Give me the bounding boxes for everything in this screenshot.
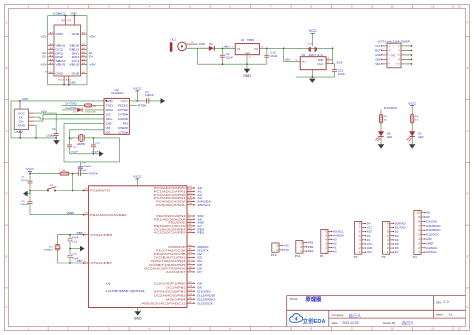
svg-text:16MHz: 16MHz	[44, 250, 53, 252]
svg-text:A1: A1	[333, 245, 337, 249]
wire VCC to SJ1	[312, 34, 314, 46]
svg-text:1/1: 1/1	[448, 312, 453, 316]
capacitor C11	[92, 138, 94, 145]
svg-text:VCC: VCC	[367, 242, 373, 246]
svg-text:A2: A2	[333, 241, 337, 245]
svg-text:A4: A4	[49, 43, 53, 46]
svg-text:SWC: SWC	[375, 63, 381, 66]
svg-text:22pF: 22pF	[71, 151, 79, 153]
U5 pin stubs right	[326, 59, 333, 61]
svg-text:30: 30	[188, 245, 192, 247]
header P12	[272, 243, 279, 252]
svg-text:A4: A4	[49, 55, 53, 58]
wire U5 gnd	[311, 70, 313, 77]
svg-text:D0: D0	[367, 234, 371, 238]
svg-text:SBU2: SBU2	[55, 59, 66, 63]
U3 pin CLKO/ICP1/PB0	[187, 282, 194, 284]
svg-text:9: 9	[388, 64, 390, 66]
svg-text:TAB: TAB	[317, 59, 323, 62]
ground rail power section	[198, 63, 267, 65]
USB type-C connector USB1 outer wires	[48, 15, 87, 17]
U3 pin PE1/ADC6/ACXP	[187, 218, 194, 220]
svg-text:27: 27	[188, 200, 192, 202]
svg-text:GND: GND	[426, 237, 432, 241]
IC U2 CH340G	[104, 98, 129, 134]
svg-text:1N4148: 1N4148	[85, 112, 97, 114]
svg-text:22pF: 22pF	[72, 237, 80, 239]
svg-text:DC1: DC1	[171, 39, 177, 42]
usb2 ground rail	[10, 101, 12, 138]
wire R1 to C5	[69, 173, 78, 175]
svg-text:12: 12	[188, 281, 192, 283]
wire crystal gnd	[70, 248, 80, 250]
svg-text:XTALI/PB6: XTALI/PB6	[90, 233, 113, 237]
svg-text:7: 7	[388, 59, 390, 61]
svg-text:UD-: UD-	[106, 122, 113, 126]
svg-text:GND: GND	[22, 97, 28, 101]
svg-text:D12/MISO: D12/MISO	[426, 228, 440, 232]
svg-text:6: 6	[398, 55, 400, 57]
svg-text:DN2: DN2	[55, 55, 63, 59]
svg-text:LGT8F328P-QFP32L: LGT8F328P-QFP32L	[106, 289, 146, 293]
svg-text:GND: GND	[245, 53, 251, 55]
svg-text:1117-3.3: 1117-3.3	[308, 54, 323, 57]
U3 pin PC0/ADC0/APP0	[187, 187, 194, 189]
ground arrow x1	[80, 246, 85, 252]
svg-text:A4: A4	[49, 71, 53, 74]
LCEDA logo	[290, 314, 303, 323]
svg-text:A4: A4	[49, 62, 53, 65]
svg-text:1: 1	[188, 256, 190, 258]
svg-text:13: 13	[188, 231, 192, 233]
U3 pin PC5/ADC5/SCL	[187, 204, 194, 206]
wire +5V from USB2 VCC	[34, 112, 56, 114]
svg-text:PD0/RXD: PD0/RXD	[168, 245, 185, 249]
wire reset node down	[72, 174, 74, 191]
svg-text:19: 19	[84, 213, 88, 215]
ground arrow under C6	[55, 138, 57, 140]
USB-C bottom pin drops	[63, 76, 65, 85]
svg-text:D10/SS: D10/SS	[426, 219, 437, 223]
svg-text:GND: GND	[18, 123, 25, 127]
svg-text:D8: D8	[197, 281, 202, 285]
U3 pin PE2/SWD	[187, 222, 194, 224]
svg-text:24: 24	[188, 190, 192, 192]
svg-text:+5V: +5V	[41, 109, 47, 113]
U2 pin1 mark	[105, 100, 107, 102]
svg-text:P3: P3	[382, 255, 386, 259]
svg-text:VBUS: VBUS	[55, 63, 65, 67]
wire C5 to RST#	[81, 173, 89, 175]
svg-text:D: D	[6, 193, 8, 196]
svg-text:D12/MISO: D12/MISO	[197, 297, 215, 301]
svg-text:XO: XO	[106, 131, 111, 135]
svg-text:D2: D2	[395, 230, 399, 234]
P5 pin pair row 3	[382, 54, 387, 56]
header P4	[414, 210, 421, 254]
svg-text:10: 10	[188, 266, 192, 268]
resistor R7	[411, 114, 414, 123]
svg-text:VCC: VCC	[284, 248, 290, 252]
U3 pin OC2B/INT1/PD3	[187, 257, 194, 259]
wire down to U5 output	[332, 48, 334, 63]
svg-text:D3: D3	[395, 234, 399, 238]
svg-text:MISO/PB4: MISO/PB4	[166, 297, 186, 301]
svg-text:DCD#: DCD#	[118, 117, 128, 121]
svg-text:PB6: PB6	[77, 231, 84, 235]
svg-text:D1/TX: D1/TX	[197, 248, 209, 252]
svg-text:VCC: VCC	[284, 243, 290, 247]
wire AVREF	[30, 214, 83, 216]
resistor R6	[379, 114, 382, 123]
svg-text:10uF: 10uF	[270, 55, 278, 58]
U3 pin AC1O/OC1A/PE5	[187, 232, 194, 234]
svg-text:22pF: 22pF	[72, 258, 80, 260]
svg-text:D5: D5	[395, 242, 399, 246]
svg-text:CC2: CC2	[55, 47, 63, 51]
svg-text:D7: D7	[395, 250, 399, 254]
svg-text:R232: R232	[118, 104, 128, 108]
svg-text:D11/MOSI: D11/MOSI	[197, 293, 215, 297]
U3 pin OC1A/PB1	[187, 286, 194, 288]
svg-text:P9: P9	[354, 255, 358, 259]
svg-text:LED: LED	[418, 137, 424, 139]
frame column ticks and numbers	[47, 5, 49, 9]
svg-text:SPSS/OC1B/PB2: SPSS/OC1B/PB2	[154, 289, 187, 293]
svg-text:2: 2	[188, 259, 190, 261]
svg-text:D: D	[467, 193, 469, 196]
capacitor C2	[222, 48, 224, 55]
svg-text:C: C	[6, 130, 8, 133]
title block border	[287, 296, 466, 327]
svg-text:11: 11	[188, 270, 192, 272]
serial TXD wire with resistor R2	[62, 104, 84, 106]
svg-text:D13/SCK: D13/SCK	[426, 233, 439, 237]
svg-text:B4: B4	[82, 44, 86, 46]
svg-text:USB(C): USB(C)	[53, 12, 66, 16]
node C10	[266, 48, 268, 50]
ground arrow led1	[378, 144, 385, 148]
svg-text:12: 12	[188, 227, 192, 229]
wire led2 to gnd	[411, 137, 413, 144]
svg-text:10uF: 10uF	[226, 57, 234, 60]
svg-text:ACXN/PD7: ACXN/PD7	[166, 270, 186, 274]
svg-text:A4: A4	[49, 51, 53, 54]
svg-text:9: 9	[188, 263, 190, 265]
svg-text:GND: GND	[199, 42, 205, 46]
svg-text:+5V: +5V	[89, 63, 96, 67]
svg-text:1.0: 1.0	[444, 300, 449, 304]
wire +5V to U5 input	[284, 48, 301, 61]
svg-text:5: 5	[388, 55, 390, 57]
svg-text:DP2: DP2	[55, 51, 63, 55]
wire cap branch bottom	[69, 249, 71, 263]
svg-text:10uF: 10uF	[21, 180, 29, 182]
svg-text:B1: B1	[45, 71, 49, 73]
node GND bottom of USB-C	[63, 84, 65, 86]
svg-text:PD2/INT0/OC3B: PD2/INT0/OC3B	[154, 252, 186, 256]
svg-text:VCC: VCC	[133, 87, 142, 91]
header P3	[383, 221, 390, 254]
U3 pin PD0/RXD	[187, 246, 194, 248]
wire cap branch top	[69, 235, 71, 249]
ground arrow led2	[409, 144, 416, 148]
svg-text:GND: GND	[71, 11, 77, 15]
svg-text:PE6/ADC10/AVREF: PE6/ADC10/AVREF	[90, 213, 127, 217]
svg-text:GND: GND	[72, 71, 80, 75]
wire USB2 D+ to U2	[34, 114, 104, 121]
svg-text:7: 7	[84, 233, 86, 235]
U3 pin PE0/SWC/APN4	[187, 215, 194, 217]
svg-text:8: 8	[84, 261, 86, 263]
ground arrow right of C4	[161, 98, 166, 104]
svg-text:2021-12-09: 2021-12-09	[342, 321, 359, 325]
svg-text:VBUS: VBUS	[55, 44, 65, 48]
svg-text:OC2A/MOSI/PB3: OC2A/MOSI/PB3	[154, 293, 187, 297]
svg-text:VBUS: VBUS	[69, 63, 79, 67]
U2 VCC wire right	[129, 100, 160, 102]
serial RXD wire with diode D4	[62, 109, 77, 111]
wire U4 out rail	[259, 47, 332, 49]
svg-text:B4: B4	[82, 33, 86, 35]
svg-text:D+: D+	[42, 51, 47, 55]
svg-text:D+: D+	[89, 55, 94, 59]
svg-text:2: 2	[188, 214, 190, 216]
svg-text:D9: D9	[197, 285, 202, 289]
capacitor C7	[69, 138, 71, 145]
U3 pin OC2A/MOSI/PB3	[187, 294, 194, 296]
svg-text:12MHz: 12MHz	[76, 144, 86, 146]
svg-text:DSR#: DSR#	[118, 126, 128, 130]
svg-text:25: 25	[188, 193, 192, 195]
svg-text:31: 31	[188, 248, 192, 250]
svg-text:D7: D7	[197, 270, 202, 274]
svg-text:A4: A4	[49, 58, 53, 61]
P5 pin pair row 1	[382, 45, 387, 47]
svg-text:VCC: VCC	[133, 175, 142, 179]
svg-text:PC6/RSTN: PC6/RSTN	[90, 189, 110, 193]
svg-text:D4: D4	[395, 238, 399, 242]
svg-text:PC0/ADC0/APP0: PC0/ADC0/APP0	[154, 186, 187, 190]
svg-text:TXD: TXD	[106, 104, 113, 108]
U3 pin RXD/T0/DAO/PD4	[187, 260, 194, 262]
svg-text:D0/RXD: D0/RXD	[395, 221, 406, 225]
U3 pin ACXN/PD7	[187, 271, 194, 273]
svg-text:自己人: 自己人	[402, 320, 414, 326]
wire XI loop outer	[64, 123, 120, 161]
svg-text:PC5/ADC5/SCL: PC5/ADC5/SCL	[156, 203, 186, 207]
U3 pin PC4/ADC4/SDA	[187, 200, 194, 202]
wire USB-C top pin drops	[64, 16, 66, 25]
MCU ground	[137, 308, 139, 312]
svg-text:+5V: +5V	[40, 35, 47, 39]
svg-text:D13/SCK: D13/SCK	[384, 106, 398, 110]
svg-text:A4/SDA: A4/SDA	[426, 246, 437, 250]
svg-text:D-/TXD: D-/TXD	[66, 102, 78, 106]
node 5V branch	[283, 48, 285, 50]
U3 pin PD2/INT0/OC3B	[187, 253, 194, 255]
svg-text:PC4/ADC4/SDA: PC4/ADC4/SDA	[156, 200, 186, 204]
U3 pin PC1/ADC1/APP1	[187, 190, 194, 192]
svg-text:VCC: VCC	[309, 29, 318, 33]
ground under U5	[309, 79, 316, 83]
svg-text:GND: GND	[375, 54, 381, 57]
LED D5	[378, 131, 384, 136]
capacitor C3	[29, 191, 31, 202]
svg-text:A5/SCL: A5/SCL	[197, 203, 211, 207]
svg-text:Vin: Vin	[367, 250, 373, 254]
svg-text:4: 4	[327, 58, 329, 60]
crystal gnd wire	[70, 153, 100, 155]
svg-text:PB5/SCK/AC1P/ADC13: PB5/SCK/AC1P/ADC13	[142, 301, 187, 305]
svg-text:D6: D6	[197, 266, 202, 270]
svg-text:B4: B4	[82, 63, 86, 65]
svg-text:RST: RST	[375, 49, 381, 52]
svg-text:D0/RX: D0/RX	[197, 245, 209, 249]
svg-text:CTS#: CTS#	[118, 131, 128, 135]
svg-text:2: 2	[398, 46, 400, 48]
svg-text:A0: A0	[197, 186, 202, 190]
svg-text:D8: D8	[426, 211, 430, 215]
svg-text:GND: GND	[367, 246, 373, 250]
svg-text:RI: RI	[123, 122, 128, 126]
svg-text:D10/SS: D10/SS	[197, 289, 211, 293]
svg-text:B4: B4	[82, 48, 86, 50]
svg-text:PD1/TXD/OC3A: PD1/TXD/OC3A	[156, 248, 186, 252]
frame row ticks and letters	[5, 36, 9, 38]
wire U2 GND to USB2 shield	[11, 100, 104, 102]
svg-text:VCC: VCC	[121, 99, 128, 103]
wire PB7	[58, 250, 84, 263]
svg-text:10: 10	[396, 64, 400, 66]
DC1 pin 3 GND stub	[186, 43, 197, 45]
svg-text:RTS#: RTS#	[138, 104, 147, 108]
svg-text:OC1A/PB1: OC1A/PB1	[166, 285, 186, 289]
svg-text:17: 17	[188, 301, 192, 303]
svg-text:Drawn By:: Drawn By:	[383, 321, 396, 325]
ground arrow crystal	[99, 151, 104, 157]
svg-text:VCC: VCC	[367, 226, 373, 230]
svg-text:D+/RXD: D+/RXD	[66, 106, 78, 110]
svg-text:C: C	[467, 130, 469, 133]
svg-text:A5/SCL: A5/SCL	[426, 250, 437, 254]
svg-text:100nF: 100nF	[20, 204, 30, 206]
svg-text:23: 23	[188, 186, 192, 188]
svg-text:A1: A1	[62, 19, 66, 22]
crystal X2	[70, 137, 79, 139]
svg-text:AC1O/OC1A/PE5: AC1O/OC1A/PE5	[154, 231, 187, 235]
svg-text:2: 2	[327, 62, 329, 64]
svg-text:D9: D9	[426, 215, 430, 219]
svg-text:8: 8	[398, 59, 400, 61]
svg-text:B4: B4	[82, 59, 86, 61]
svg-text:Company:: Company:	[332, 313, 345, 317]
node crystal left	[69, 137, 71, 139]
U3 pin PE3/ADC7/AC1N	[187, 225, 194, 227]
svg-text:D4: D4	[197, 259, 202, 263]
crystal X1	[55, 244, 60, 246]
svg-text:3V3: 3V3	[336, 60, 343, 64]
wire r7 to led2	[411, 123, 413, 131]
U3 pin MISO/PB4	[187, 298, 194, 300]
svg-text:26: 26	[188, 196, 192, 198]
svg-text:3: 3	[388, 50, 390, 52]
U3 pin OC1B/OC0A/PE4	[187, 228, 194, 230]
svg-text:VCC: VCC	[375, 45, 381, 48]
svg-text:P11: P11	[295, 254, 301, 258]
wire U4 GND down	[246, 55, 248, 64]
U3 pin PC3/ADC3/APN1	[187, 197, 194, 199]
P5 pin pair row 4	[382, 58, 387, 60]
svg-text:PE0: PE0	[308, 249, 314, 253]
svg-text:P4: P4	[413, 255, 417, 259]
svg-text:LED: LED	[387, 137, 393, 139]
svg-text:XI: XI	[106, 126, 111, 130]
svg-text:PE5: PE5	[197, 231, 204, 235]
svg-text:RXD: RXD	[106, 108, 113, 112]
svg-text:SWD: SWD	[375, 58, 381, 61]
svg-text:28: 28	[188, 203, 192, 205]
U3 pin PB5/SCK/AC1P/ADC13	[187, 302, 194, 304]
svg-text:GND: GND	[243, 74, 251, 78]
svg-text:SBU1: SBU1	[69, 47, 80, 51]
svg-text:D-: D-	[89, 51, 94, 55]
svg-text:OC2B/INT1/PD3: OC2B/INT1/PD3	[154, 256, 187, 260]
svg-text:CH340G: CH340G	[111, 91, 124, 95]
node rail right end	[332, 48, 334, 50]
svg-text:RST#: RST#	[89, 172, 98, 176]
MCU left pins	[83, 190, 89, 192]
wire led1	[380, 109, 382, 114]
svg-text:32: 32	[188, 252, 192, 254]
switch S2	[47, 190, 49, 192]
U3 pin OC0A/AC0P/TXD/PD6	[187, 267, 194, 269]
svg-text:GND: GND	[106, 99, 113, 103]
svg-text:PC2/ADC2/APN0: PC2/ADC2/APN0	[154, 193, 187, 197]
wire S2 to MCU reset	[56, 190, 83, 192]
svg-text:RXD/T0/DAO/PD4: RXD/T0/DAO/PD4	[151, 259, 186, 263]
wire PB6	[58, 235, 84, 245]
svg-text:D13/SCK: D13/SCK	[197, 301, 213, 305]
svg-text:D3: D3	[197, 256, 202, 260]
svg-text:D5: D5	[197, 263, 202, 267]
svg-text:D11/MOSI: D11/MOSI	[426, 224, 441, 228]
ground arrow left	[29, 191, 31, 194]
svg-text:100nF: 100nF	[78, 170, 88, 172]
svg-text:14: 14	[188, 289, 192, 291]
svg-text:AREF: AREF	[426, 241, 434, 245]
svg-text:A4/SDA: A4/SDA	[197, 199, 211, 203]
node crystal right	[93, 137, 95, 139]
header P1	[321, 229, 328, 253]
node reset left	[29, 190, 31, 192]
header P9	[355, 221, 362, 254]
U3 pin PC2/ADC2/APN0	[187, 194, 194, 196]
capacitor C10	[266, 48, 268, 55]
IC U3 LGT8F328P	[89, 186, 187, 308]
svg-text:PE1: PE1	[308, 241, 314, 245]
LED D1	[409, 131, 415, 136]
svg-text:Out: Out	[317, 63, 323, 66]
svg-text:TITLE:: TITLE:	[289, 297, 298, 301]
svg-text:13: 13	[188, 285, 192, 287]
USB-C connector body	[54, 25, 81, 76]
U3 pin SPSS/OC1B/PB2	[187, 290, 194, 292]
svg-text:GND: GND	[134, 317, 142, 321]
svg-text:7805: 7805	[247, 39, 255, 42]
svg-text:自己人: 自己人	[349, 312, 362, 319]
svg-text:B12: B12	[59, 80, 64, 82]
